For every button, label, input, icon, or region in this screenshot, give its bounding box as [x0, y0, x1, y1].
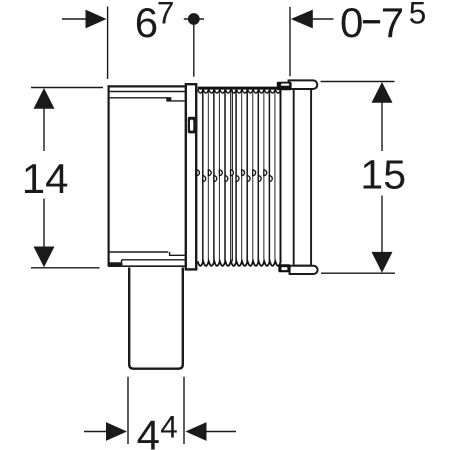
svg-text:5: 5 [409, 0, 427, 31]
svg-text:15: 15 [360, 151, 406, 197]
svg-text:4: 4 [160, 409, 178, 445]
svg-text:7: 7 [157, 0, 175, 30]
svg-text:0: 0 [340, 0, 363, 46]
svg-text:6: 6 [135, 0, 158, 46]
svg-text:4: 4 [137, 411, 160, 450]
svg-text:14: 14 [22, 155, 69, 202]
svg-text:7: 7 [381, 0, 404, 46]
